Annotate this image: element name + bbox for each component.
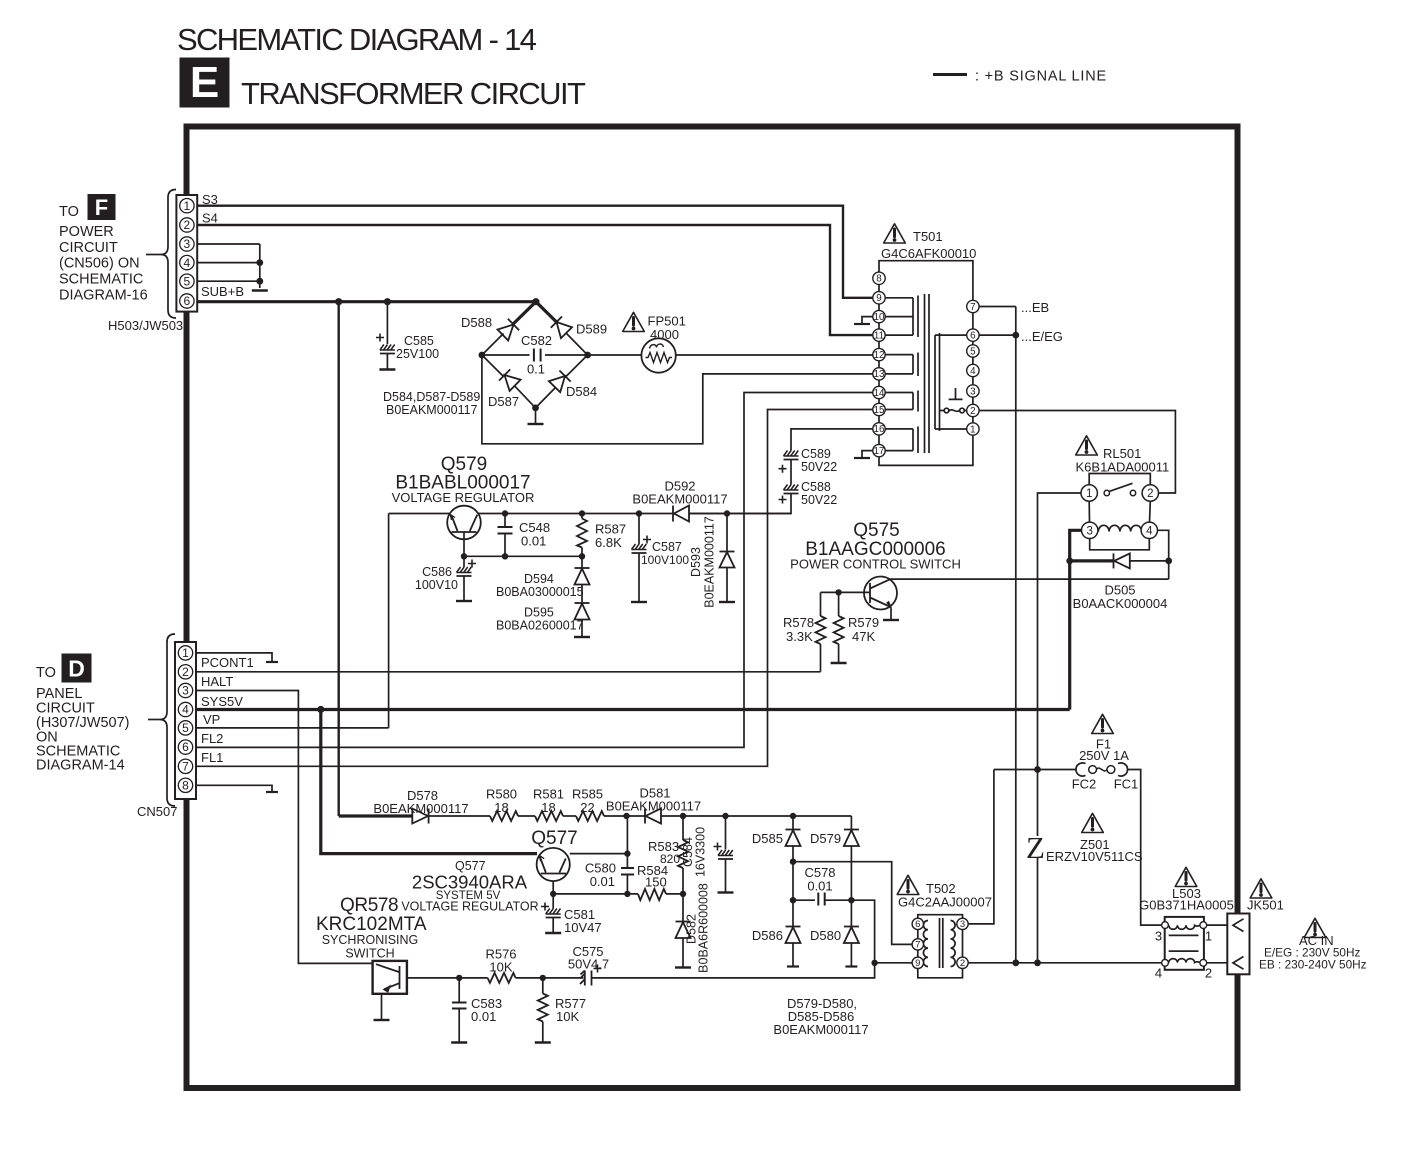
wire EB from pin7	[979, 306, 1016, 308]
svg-text:B0EAKM000117: B0EAKM000117	[632, 492, 727, 507]
transformer T502 body	[912, 915, 968, 978]
svg-text:7: 7	[915, 940, 920, 951]
svg-text:E: E	[190, 58, 219, 107]
pin 6	[178, 740, 192, 754]
svg-text:8: 8	[182, 778, 189, 792]
line filter L503 body	[1162, 917, 1207, 970]
resistor R578	[816, 592, 839, 671]
pin 1	[178, 646, 192, 660]
wire Q579 emitter bottom rail	[464, 555, 582, 557]
section letter E box	[180, 58, 230, 108]
optocoupler QR578 body	[373, 961, 407, 994]
svg-text:2: 2	[1205, 966, 1212, 981]
capacitor C585	[376, 302, 395, 369]
capacitor C580	[621, 854, 634, 894]
relay RL501 body	[1081, 474, 1159, 550]
svg-text:TRANSFORMER CIRCUIT: TRANSFORMER CIRCUIT	[241, 76, 586, 111]
wire E/EG vertical bus	[1015, 307, 1017, 963]
T502 right winding	[951, 921, 956, 967]
svg-text:5: 5	[970, 346, 976, 357]
capacitor C586	[457, 556, 477, 600]
svg-text:VOLTAGE REGULATOR: VOLTAGE REGULATOR	[401, 900, 538, 914]
capacitor C581	[541, 894, 561, 932]
L503 bottom winding	[1169, 959, 1200, 963]
wire AC bus riser lower part (below Z501)	[1037, 858, 1039, 963]
svg-text:R578: R578	[783, 615, 814, 630]
svg-text:POWER: POWER	[59, 224, 114, 240]
wire SUB+B drop to D578	[338, 302, 340, 816]
wire Q579 bottom lead	[463, 532, 465, 556]
brace for H503	[161, 190, 176, 319]
svg-text:15: 15	[874, 405, 885, 416]
svg-text:10K: 10K	[489, 960, 512, 975]
svg-text:10K: 10K	[556, 1009, 579, 1024]
capacitor C578	[793, 893, 851, 906]
resistor R577	[538, 978, 548, 1042]
diode D581	[645, 809, 661, 824]
svg-text:POWER CONTROL SWITCH: POWER CONTROL SWITCH	[790, 557, 961, 572]
wire S3 (pin1 to T501 pin9)	[197, 206, 873, 298]
svg-text:VP: VP	[203, 712, 220, 727]
svg-text:5: 5	[184, 274, 191, 288]
svg-text:6: 6	[182, 740, 189, 754]
wire VP (pin5)	[196, 727, 389, 729]
svg-text:5: 5	[182, 721, 189, 735]
capacitor C575	[580, 965, 602, 986]
wire Q577 emitter rail	[553, 881, 638, 894]
resistor R579	[834, 592, 844, 662]
svg-text:2: 2	[184, 218, 191, 232]
warning triangle JK501	[1250, 879, 1272, 898]
wire pin6 to E/EG bus	[979, 334, 1016, 336]
relay pin 3	[1082, 522, 1098, 538]
relay pin 4	[1141, 522, 1157, 538]
resistor R581	[535, 811, 563, 821]
svg-text:2: 2	[960, 958, 965, 969]
svg-text:47K: 47K	[852, 629, 875, 644]
svg-text:F: F	[95, 195, 108, 220]
svg-text:B0BA03000015: B0BA03000015	[496, 585, 584, 599]
svg-text:1: 1	[1086, 488, 1092, 500]
wire Q575 base	[839, 591, 870, 593]
svg-text:SYCHRONISING: SYCHRONISING	[322, 933, 419, 947]
svg-text:PCONT1: PCONT1	[201, 655, 254, 670]
svg-text:SUB+B: SUB+B	[201, 284, 244, 299]
svg-text:C582: C582	[521, 333, 552, 348]
relay pin 2	[1142, 485, 1158, 501]
svg-text:D580: D580	[810, 928, 841, 943]
ground (bridge)	[528, 423, 544, 425]
svg-text:6.8K: 6.8K	[595, 535, 622, 550]
ground (R579)	[831, 662, 847, 664]
wire S4 (pin2 to T501 pin11)	[197, 225, 873, 335]
svg-text:G0B371HA0005: G0B371HA0005	[1139, 898, 1234, 913]
svg-text:4: 4	[1146, 525, 1153, 537]
wire pin1 PCONT1 ground stub	[196, 653, 272, 662]
ground (QR578)	[374, 1019, 390, 1021]
svg-text:CIRCUIT: CIRCUIT	[59, 240, 118, 256]
svg-text:B0AACK000004: B0AACK000004	[1073, 596, 1168, 611]
svg-text:16V3300: 16V3300	[694, 827, 708, 877]
T501 winding bars group2 (pins 12-13)	[885, 353, 918, 377]
svg-text:17: 17	[874, 446, 885, 457]
svg-text:18: 18	[494, 800, 508, 815]
wire pins 3-4-5 common	[197, 244, 260, 288]
ground (D593)	[719, 601, 735, 603]
wire C578 right node to T502 pin9	[851, 900, 912, 963]
relay contact	[1104, 490, 1109, 495]
T501 left pins 8-17	[873, 272, 885, 457]
svg-text:C585: C585	[404, 334, 434, 348]
svg-text:3: 3	[184, 237, 191, 251]
svg-text:B0EAKM000117: B0EAKM000117	[386, 403, 478, 417]
svg-text:1: 1	[1205, 929, 1212, 944]
svg-text:9: 9	[915, 958, 920, 969]
diode D582	[676, 894, 691, 967]
wire R576 to C575	[516, 977, 584, 979]
svg-text:4: 4	[1155, 966, 1162, 981]
connector JK501 body	[1227, 914, 1249, 975]
warning triangle AC IN	[1304, 918, 1326, 937]
L503 top winding	[1169, 925, 1200, 929]
svg-text:C589: C589	[801, 447, 831, 461]
diode D585	[786, 816, 801, 900]
svg-text:13: 13	[874, 369, 885, 380]
wire FP501 to T501 pin12	[676, 354, 873, 356]
svg-text:100V10: 100V10	[415, 578, 458, 592]
resistor R580	[490, 811, 518, 821]
T502 left winding	[923, 921, 928, 967]
wire D578 to R580	[429, 815, 490, 817]
svg-text:9: 9	[876, 293, 881, 304]
warning triangle F1	[1092, 714, 1114, 733]
svg-text:B0EAKM000117: B0EAKM000117	[606, 799, 701, 814]
wire Q575 collector to relay pin4 riser	[890, 578, 1169, 580]
svg-text:FL2: FL2	[201, 731, 223, 746]
T502 core	[940, 918, 943, 968]
svg-text:EB : 230-240V 50Hz: EB : 230-240V 50Hz	[1259, 958, 1367, 972]
wire T501 pin16 to C589	[791, 429, 873, 451]
wire R585/D581 junction drop to collector	[626, 816, 628, 854]
L503 pin bubbles	[1162, 922, 1169, 929]
ground (C581)	[545, 932, 561, 934]
svg-text:SYS5V: SYS5V	[201, 694, 243, 709]
svg-text:Q575: Q575	[853, 520, 899, 541]
diode D595	[575, 603, 590, 636]
diode D578	[412, 809, 428, 824]
svg-text:0.01: 0.01	[521, 534, 546, 549]
connector H503/JW503 body	[176, 195, 197, 312]
resistor R585	[576, 811, 604, 821]
svg-text:0.01: 0.01	[471, 1009, 496, 1024]
wire C575 to T502 pin9 node	[592, 963, 875, 978]
diode D586	[786, 900, 801, 966]
warning triangle T501	[884, 224, 906, 243]
svg-text:Q577: Q577	[531, 828, 577, 849]
relay coil	[1098, 525, 1141, 531]
svg-text:CN507: CN507	[137, 804, 177, 819]
svg-text:: +B SIGNAL LINE: : +B SIGNAL LINE	[975, 69, 1107, 85]
svg-text:KRC102MTA: KRC102MTA	[316, 914, 427, 935]
wire QR578 output	[407, 977, 488, 979]
ground (R577)	[535, 1042, 551, 1044]
T502 pin 7	[912, 939, 923, 950]
svg-text:B0EAKM000117: B0EAKM000117	[373, 801, 468, 816]
svg-text:3: 3	[970, 386, 976, 397]
svg-text:4: 4	[184, 256, 191, 270]
pin 5	[180, 274, 194, 288]
capacitor C583	[452, 978, 467, 1042]
svg-text:B0EAKM000117: B0EAKM000117	[773, 1022, 868, 1037]
svg-text:FC2: FC2	[1072, 777, 1097, 792]
T501 secondary winding bars	[935, 333, 967, 431]
wire T502 pin3 up to F1 line	[968, 770, 994, 924]
pin 7	[178, 759, 192, 773]
transistor Q575	[864, 577, 897, 610]
svg-text:D589: D589	[576, 322, 607, 337]
pin 4	[180, 255, 194, 269]
border frame	[187, 127, 1238, 1089]
svg-text:K6B1ADA00011: K6B1ADA00011	[1076, 460, 1170, 475]
svg-text:4000: 4000	[650, 327, 679, 342]
svg-text:FC1: FC1	[1114, 777, 1139, 792]
T501 winding bars group3 (pins 14-15)	[885, 391, 918, 412]
ground (C586)	[456, 600, 472, 602]
wire bridge left vertex down to pin13 route	[482, 355, 873, 444]
T501 right pins 7-1	[967, 300, 979, 435]
diode D588	[498, 319, 520, 341]
svg-text:HALT: HALT	[201, 674, 233, 689]
T501 internal thermal switch near pin2	[940, 388, 967, 413]
wire VP riser	[388, 514, 390, 728]
wire bridge right vertex to FP501	[588, 354, 642, 356]
fusible resistor FP501	[641, 338, 675, 372]
svg-text:0.01: 0.01	[807, 879, 832, 894]
ground (T501 pin10)	[862, 317, 873, 324]
svg-text:50V4.7: 50V4.7	[568, 957, 609, 972]
svg-text:10: 10	[874, 312, 885, 323]
capacitor C587	[632, 514, 652, 602]
svg-text:QR578: QR578	[340, 895, 398, 916]
svg-text:T501: T501	[913, 229, 943, 244]
wire relay pin3 +B thick riser	[1070, 530, 1082, 709]
wire L503 pin2 to JK501	[1207, 962, 1228, 964]
pin 3	[178, 683, 192, 697]
pin 4	[178, 702, 192, 716]
svg-text:100V100: 100V100	[641, 553, 689, 567]
wire pin3 to QR578	[196, 691, 373, 964]
wire L503 pin1 to JK501	[1207, 924, 1228, 926]
svg-text:16: 16	[874, 424, 885, 435]
svg-text:C588: C588	[801, 480, 831, 494]
svg-text:D: D	[68, 656, 85, 682]
svg-text:D586: D586	[752, 928, 783, 943]
svg-text:(CN506) ON: (CN506) ON	[59, 256, 140, 272]
svg-text:...E/EG: ...E/EG	[1021, 329, 1063, 344]
svg-text:S4: S4	[202, 211, 218, 226]
svg-text:2: 2	[182, 665, 189, 679]
svg-text:FL1: FL1	[201, 750, 223, 765]
svg-text:S3: S3	[202, 192, 218, 207]
wire relay pin4 drop	[1158, 530, 1169, 579]
ground (C585)	[379, 369, 395, 371]
svg-text:D579: D579	[810, 831, 841, 846]
diode D587	[499, 369, 521, 391]
svg-text:Z: Z	[1026, 830, 1045, 865]
connector CN507 body	[175, 642, 196, 799]
wire T501 pin2 to relay pin2	[979, 411, 1175, 494]
wire QR578 emitter lead	[381, 994, 383, 1019]
svg-text:D594: D594	[524, 572, 554, 586]
diode D579	[844, 816, 859, 900]
diode D594	[575, 556, 590, 603]
diode D593	[720, 514, 735, 602]
wire FL2 (pin6 to T501 pin14)	[196, 393, 873, 748]
T501 left pin chain and top/bottom brackets	[879, 261, 973, 466]
svg-text:D595: D595	[524, 606, 554, 620]
wire SYS5V +B (pin4 to relay pin3)	[196, 708, 1070, 711]
svg-text:B0BA6R600008: B0BA6R600008	[697, 883, 711, 973]
capacitor C589	[779, 451, 799, 485]
transistor Q579	[447, 506, 481, 540]
wire F1 line	[994, 769, 1077, 771]
diode D592	[673, 506, 689, 522]
svg-text:3: 3	[1086, 525, 1092, 537]
warning triangle T502	[897, 875, 919, 894]
svg-text:820: 820	[660, 852, 680, 866]
svg-text:0.01: 0.01	[590, 874, 615, 889]
warning triangle L503	[1175, 867, 1197, 886]
svg-text:1: 1	[970, 424, 975, 435]
svg-text:3: 3	[182, 684, 189, 698]
diode D580	[844, 900, 859, 966]
svg-text:6: 6	[970, 330, 976, 341]
wire FL1 (pin7 to T501 pin15)	[196, 410, 873, 767]
diode D505	[1070, 553, 1169, 568]
fuse F1	[1076, 763, 1128, 776]
T501 core lines	[925, 294, 930, 453]
capacitor C584	[714, 816, 734, 892]
svg-text:4: 4	[970, 366, 976, 377]
transistor Q577	[537, 848, 570, 881]
wire R585 to D581	[604, 815, 645, 817]
ground (D595)	[574, 636, 590, 638]
svg-text:DIAGRAM-16: DIAGRAM-16	[59, 288, 148, 304]
legend +B signal line	[933, 69, 1107, 85]
svg-text:50V22: 50V22	[801, 460, 837, 474]
pin 2	[178, 665, 192, 679]
resistor R576	[488, 973, 516, 983]
svg-text:7: 7	[182, 759, 189, 773]
svg-text:D584,D587-D589: D584,D587-D589	[383, 390, 480, 404]
ground (pins 3-4-5)	[252, 290, 268, 292]
svg-text:D584: D584	[566, 384, 597, 399]
svg-text:H503/JW503: H503/JW503	[108, 318, 183, 333]
T502 pin 2	[957, 957, 968, 968]
svg-text:SWITCH: SWITCH	[345, 947, 394, 961]
wire pin8 ground stub	[196, 785, 272, 791]
capacitor C588	[689, 485, 799, 514]
ground (C584)	[718, 892, 734, 894]
svg-text:G4C6AFK00010: G4C6AFK00010	[881, 246, 976, 261]
T502 pin 6	[912, 918, 923, 929]
svg-text:C587: C587	[652, 540, 682, 554]
svg-text:D587: D587	[488, 394, 519, 409]
L503 core	[1169, 935, 1199, 951]
diode D584	[549, 371, 571, 393]
label TO F POWER CIRCUIT	[59, 194, 148, 304]
ground (D582)	[675, 967, 691, 969]
ground (C587)	[631, 601, 647, 603]
svg-text:8: 8	[876, 274, 882, 285]
svg-text:3: 3	[960, 919, 965, 930]
warning triangle Z501	[1082, 813, 1104, 832]
brace for CN507	[160, 634, 175, 806]
wire D581 to D585 rail	[661, 815, 851, 817]
svg-text:11: 11	[874, 330, 884, 341]
svg-text:TO: TO	[59, 204, 79, 220]
svg-text:VOLTAGE REGULATOR: VOLTAGE REGULATOR	[392, 490, 535, 505]
wire relay pin1 to AC bus riser	[1038, 493, 1082, 836]
T502 pin 3	[957, 918, 968, 929]
ground (CN507 pin1)	[266, 661, 278, 663]
pin 1	[180, 199, 194, 213]
svg-text:7: 7	[970, 302, 975, 313]
wire D585 mid node to T502 pin7	[793, 862, 912, 945]
svg-text:2: 2	[970, 406, 975, 417]
svg-text:14: 14	[874, 388, 885, 399]
ground (Q575 emitter)	[883, 619, 899, 621]
warning triangle RL501	[1076, 436, 1098, 455]
T501 winding bars group4 (pins 16-17)	[885, 427, 918, 454]
wire HALT (pin2 to R578)	[196, 671, 821, 673]
warning triangle FP501	[623, 312, 645, 331]
wire Q575 emitter	[890, 607, 892, 619]
svg-text:B0EAKM000117: B0EAKM000117	[703, 516, 717, 608]
wire F1 to L503 pin3	[1127, 770, 1162, 926]
resistor R584	[638, 889, 666, 900]
capacitor C582	[534, 349, 541, 362]
svg-text:D585: D585	[752, 831, 783, 846]
ground (T501 pin17)	[862, 451, 873, 458]
svg-text:R579: R579	[848, 615, 879, 630]
pin 3	[180, 237, 194, 251]
svg-text:C586: C586	[422, 565, 452, 579]
wire bridge bottom to ground	[535, 408, 537, 423]
svg-text:1: 1	[184, 199, 191, 213]
pin 6	[180, 294, 194, 308]
wire SUB+B (pin6 to bridge)	[196, 300, 537, 303]
svg-text:D588: D588	[461, 315, 492, 330]
svg-text:22: 22	[580, 800, 594, 815]
svg-text:D593: D593	[689, 547, 703, 577]
svg-text:150: 150	[645, 875, 667, 890]
svg-text:3.3K: 3.3K	[786, 629, 813, 644]
svg-text:JK501: JK501	[1247, 898, 1284, 913]
wire T502 pin2 AC line to L503 pin4	[968, 962, 1161, 964]
svg-text:6: 6	[184, 294, 191, 308]
svg-text:10V47: 10V47	[564, 920, 602, 935]
svg-text:50V22: 50V22	[801, 493, 837, 507]
svg-text:G4C2AAJ00007: G4C2AAJ00007	[898, 895, 992, 910]
svg-text:SCHEMATIC: SCHEMATIC	[59, 272, 143, 288]
resistor R583	[678, 816, 688, 894]
svg-text:SCHEMATIC DIAGRAM - 14: SCHEMATIC DIAGRAM - 14	[177, 22, 537, 57]
svg-text:4: 4	[182, 703, 189, 717]
svg-text:DIAGRAM-14: DIAGRAM-14	[36, 758, 125, 774]
capacitor C548	[498, 514, 513, 557]
svg-text:3: 3	[1155, 929, 1162, 944]
